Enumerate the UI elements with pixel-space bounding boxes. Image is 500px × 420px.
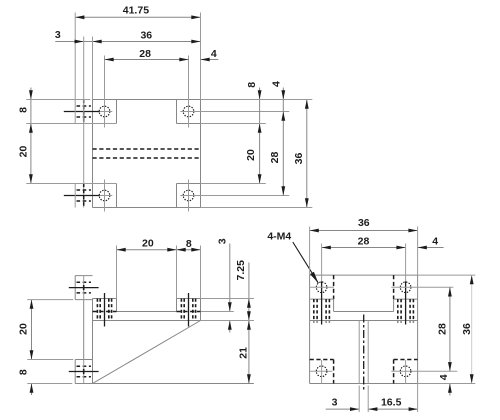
svg-text:36: 36: [461, 323, 473, 335]
svg-text:28: 28: [358, 235, 370, 247]
svg-text:7.25: 7.25: [235, 260, 247, 281]
svg-text:41.75: 41.75: [123, 5, 149, 17]
svg-text:36: 36: [358, 217, 370, 229]
svg-text:3: 3: [332, 397, 338, 409]
svg-text:4: 4: [432, 235, 438, 247]
svg-text:20: 20: [142, 238, 154, 250]
svg-text:20: 20: [17, 323, 29, 335]
svg-text:8: 8: [246, 82, 258, 88]
svg-text:3: 3: [216, 238, 228, 244]
svg-text:20: 20: [17, 146, 29, 158]
svg-text:8: 8: [186, 238, 192, 250]
svg-text:8: 8: [17, 369, 29, 375]
svg-text:28: 28: [139, 48, 151, 60]
svg-text:36: 36: [293, 153, 305, 165]
svg-text:4: 4: [211, 48, 217, 60]
svg-text:4-M4: 4-M4: [267, 231, 291, 243]
svg-text:4: 4: [438, 374, 450, 380]
svg-text:8: 8: [17, 107, 29, 113]
svg-text:20: 20: [245, 149, 257, 161]
svg-text:21: 21: [237, 347, 249, 359]
svg-text:36: 36: [140, 30, 152, 42]
svg-text:16.5: 16.5: [381, 397, 402, 409]
svg-text:28: 28: [269, 152, 281, 164]
svg-text:4: 4: [271, 81, 283, 87]
svg-text:3: 3: [55, 29, 61, 41]
svg-text:28: 28: [437, 323, 449, 335]
